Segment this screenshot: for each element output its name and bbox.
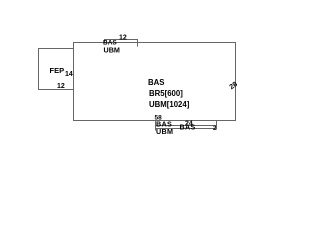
svg-text:UBM: UBM: [156, 127, 173, 136]
svg-text:12: 12: [57, 83, 65, 90]
svg-text:BAS: BAS: [148, 78, 164, 87]
svg-text:FEP: FEP: [50, 66, 65, 75]
svg-text:14: 14: [65, 71, 73, 78]
svg-text:BAS: BAS: [180, 123, 196, 132]
svg-text:UBM[1024]: UBM[1024]: [149, 100, 190, 109]
svg-text:BR5[600]: BR5[600]: [149, 89, 183, 98]
svg-text:12: 12: [119, 35, 127, 42]
svg-text:UBM: UBM: [104, 46, 120, 55]
